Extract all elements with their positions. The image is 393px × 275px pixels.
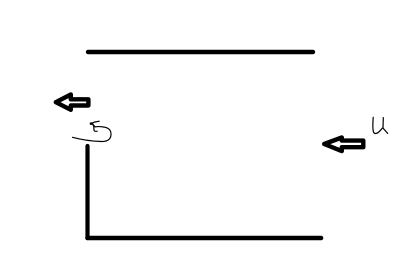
left wall line: [85, 146, 89, 238]
curved annotation arrow shaft: [73, 124, 112, 142]
curved annotation arrowhead upper barb: [92, 121, 99, 123]
bottom wall line: [88, 236, 322, 241]
left block arrow: [56, 95, 89, 110]
label u left stem: [373, 117, 383, 133]
curved annotation arrowhead lower barb: [93, 124, 97, 131]
label u right stem and tail: [383, 118, 388, 134]
top wall line: [88, 50, 313, 54]
right block arrow: [324, 138, 363, 152]
curved annotation arrowhead vertex dot: [90, 122, 93, 125]
